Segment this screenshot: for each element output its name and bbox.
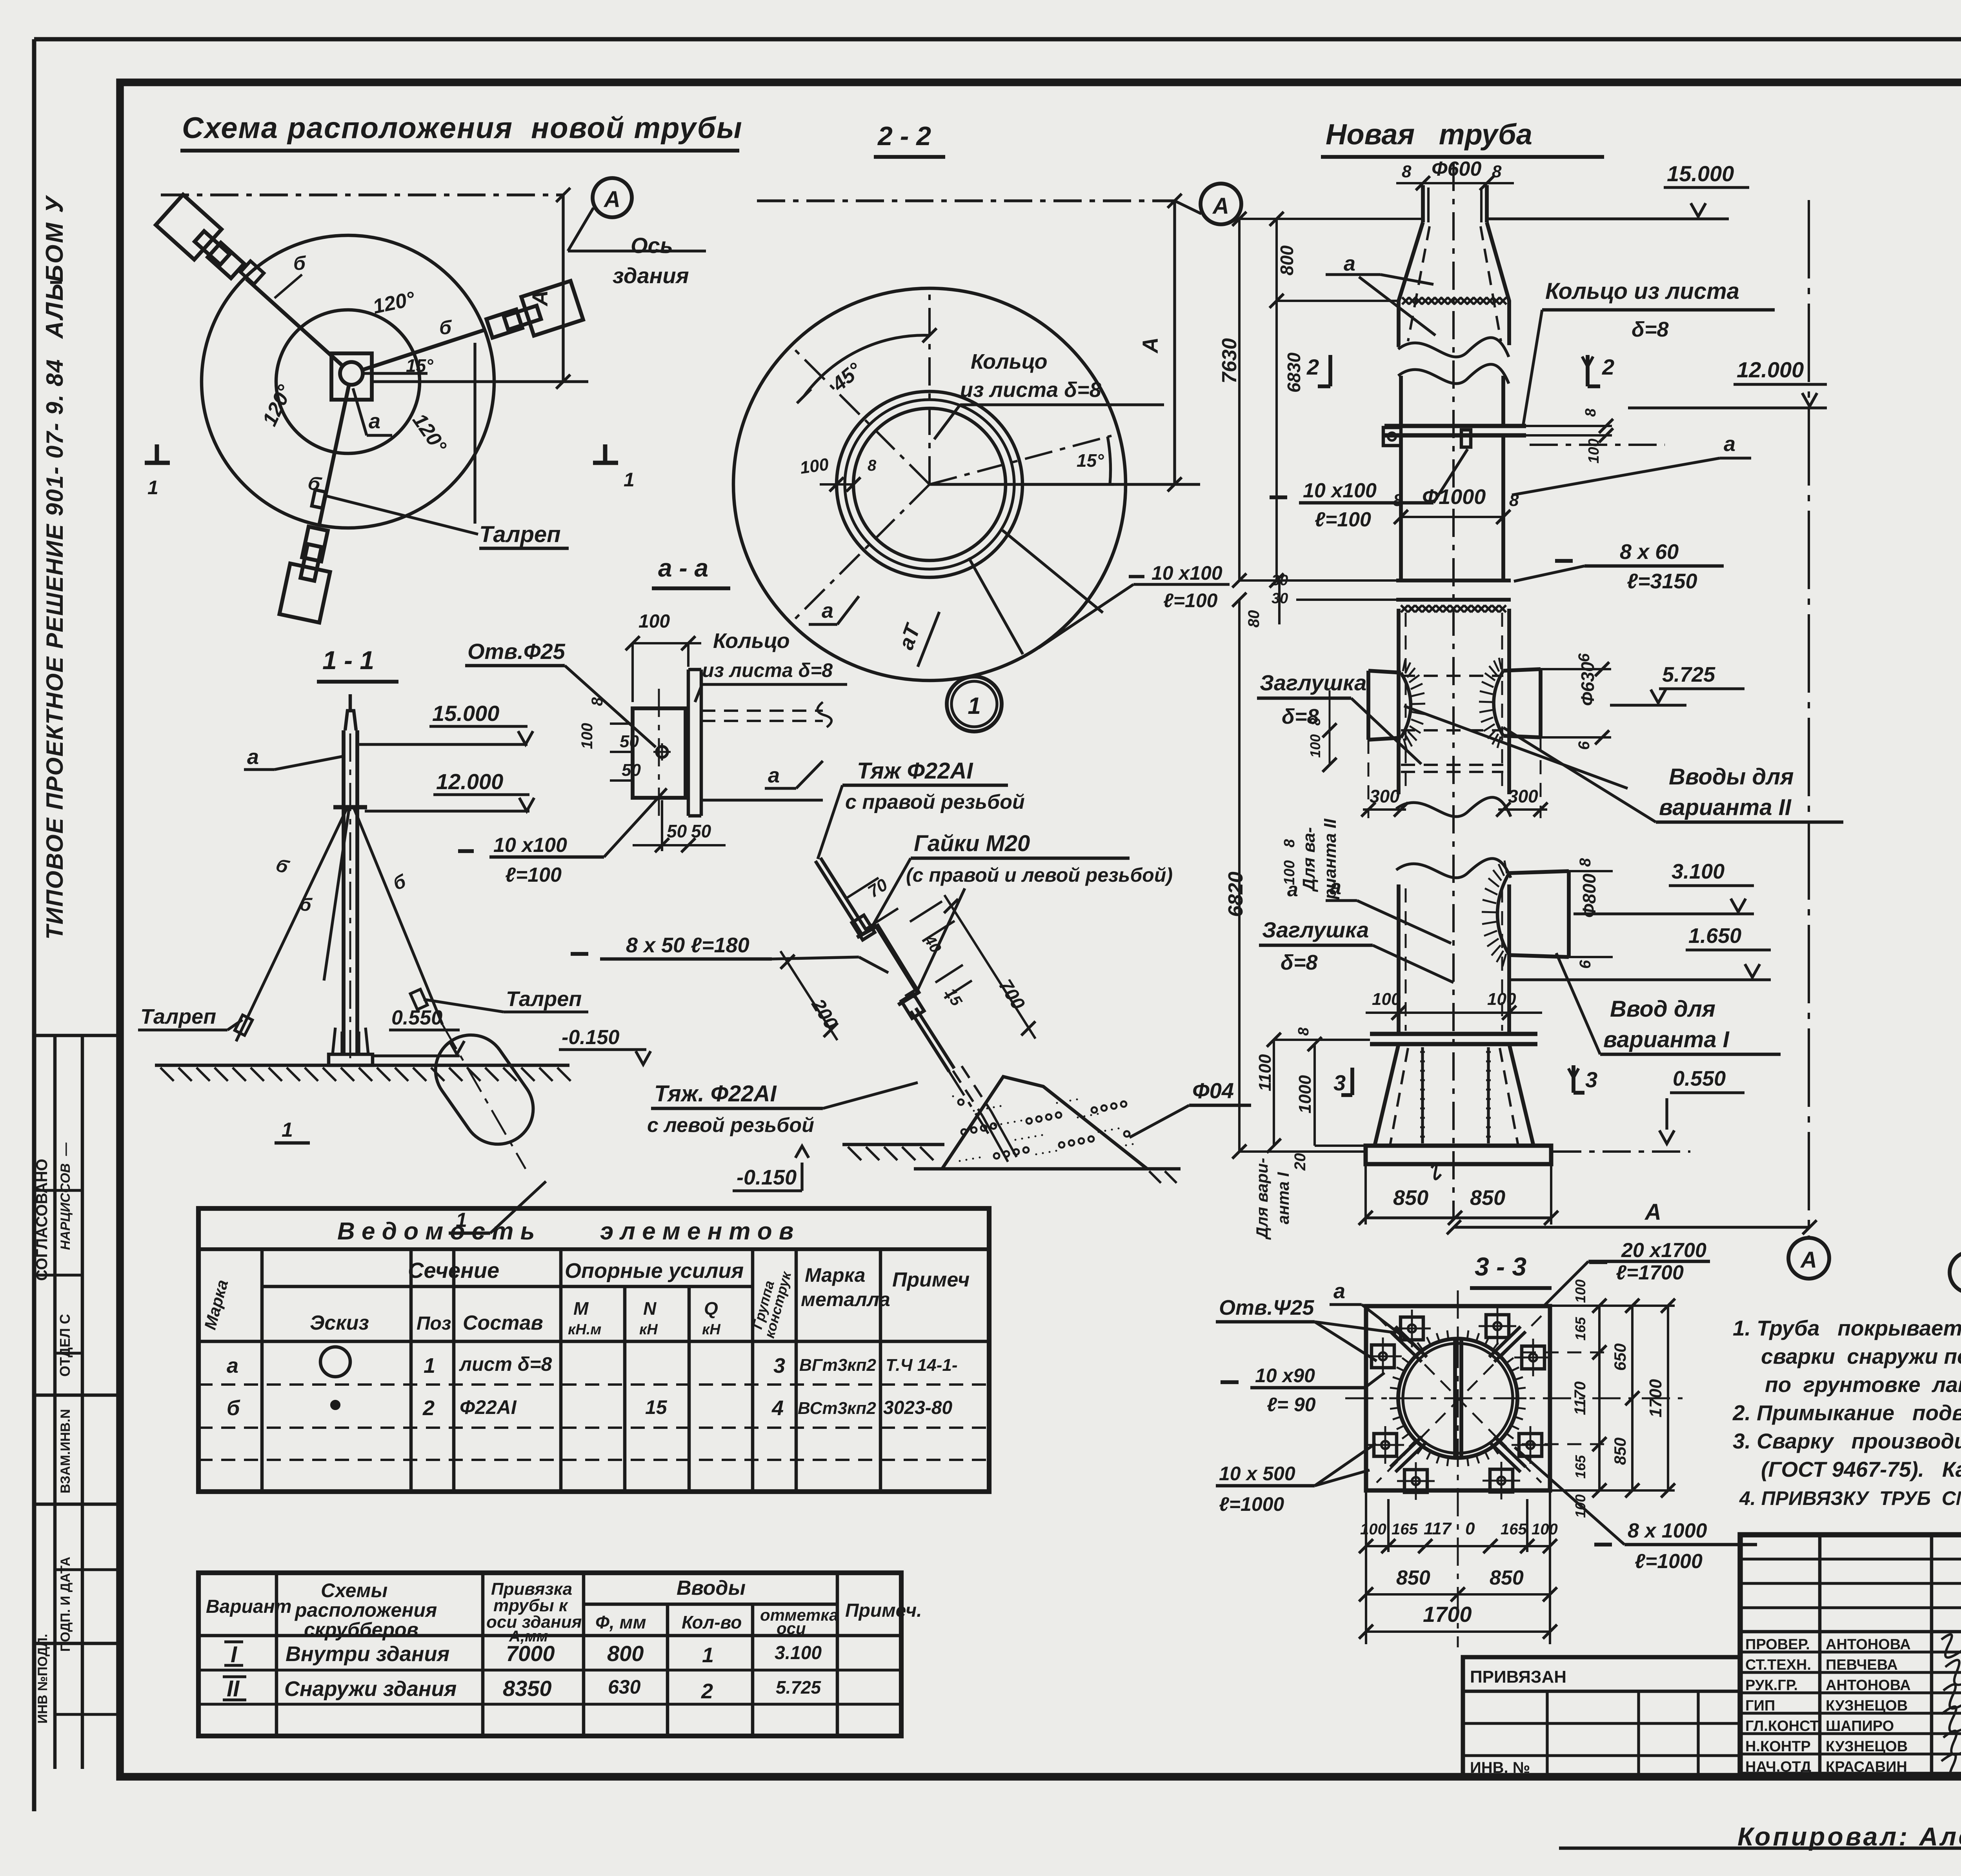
plan dim A vertical [372, 195, 588, 389]
sidebar album text [41, 195, 68, 339]
inlet port right (variant I) [1482, 861, 1569, 966]
dim 8 Ф600 8 (top) [1396, 158, 1514, 190]
dim 0.550 (1-1) [373, 1006, 464, 1056]
label a cone [1326, 252, 1435, 335]
label Для варианта II (rot) [1287, 819, 1340, 901]
3-3 dim chain bottom fine [1359, 1490, 1558, 1644]
plan anchor right [486, 309, 522, 338]
2-2 label Кольцо из листа [934, 350, 1164, 439]
table Привязан [1463, 1657, 1740, 1777]
scan noise overlay [0, 0, 0, 0]
plan angle 15 line [363, 372, 427, 375]
section mark 2 right [1582, 355, 1614, 386]
3-3 shell circle [1389, 1330, 1526, 1467]
dim 200 (turnbuckle) [780, 951, 842, 1040]
note 10x500 (3-3) [1216, 1443, 1376, 1515]
label Ф04 [1130, 1078, 1251, 1137]
dim 70 (turnbuckle) [846, 875, 898, 929]
new pipe upper shell [1398, 338, 1509, 384]
2-2 ring inner [853, 408, 1006, 560]
title block roles [1745, 1636, 1911, 1775]
label Ввод для варианта I [1556, 953, 1781, 1054]
plan label a with leader [353, 388, 392, 435]
level 1.650 (new pipe) [1511, 924, 1771, 980]
mast base [329, 1028, 373, 1065]
dim 850 850 (new pipe base) [1359, 1164, 1558, 1225]
3-3 base plate square [1366, 1306, 1550, 1490]
label Отв Ф25 (а-а) [465, 639, 656, 747]
а-а plate [633, 689, 686, 820]
label Отв Ф25 (3-3) [1216, 1296, 1396, 1361]
dim -0.150 (1-1) [559, 1026, 651, 1064]
dim 15.000 (1-1) [359, 701, 533, 744]
plan label b2 [439, 317, 452, 338]
label Талреп left (1-1) [138, 1005, 242, 1030]
2-2 dim 100 and 8 [799, 455, 877, 491]
2-2 ring mid [845, 400, 1014, 569]
plan building axis line [161, 188, 570, 202]
а-а hole Отв Ф25 [653, 743, 671, 761]
label Кольцо из листа (а-а) [695, 629, 847, 702]
3-3 centre ribs [1455, 1339, 1461, 1457]
label Заглушка lower [1259, 917, 1453, 983]
new pipe joint [1396, 580, 1511, 612]
dims left column (new pipe) [1218, 212, 1423, 1171]
new pipe cone [1399, 222, 1509, 345]
2-2 ring outer [837, 391, 1022, 577]
2-2 angle 15 wedge [1020, 437, 1114, 484]
label a (3-3) [1330, 1279, 1412, 1343]
title block frame [1740, 1535, 1961, 1774]
axis bubble A (new pipe) [1788, 1238, 1829, 1279]
2-2 axis bubble A [1175, 184, 1241, 224]
new pipe skirt [1375, 1044, 1534, 1146]
2-2 label a bottom [894, 612, 939, 667]
dim 100 100 (base) [1366, 990, 1542, 1020]
label 1 flag left (1-1) [275, 1119, 310, 1143]
dim line A (new pipe) [1447, 1199, 1817, 1234]
label Гайки М20 [873, 831, 1173, 998]
inlet port left (variant II) [1368, 660, 1425, 750]
mast collar [333, 805, 367, 810]
2-2 ring notch [969, 530, 1103, 654]
label Заглушка upper [1257, 670, 1421, 764]
port openings dashed [1401, 676, 1503, 772]
new pipe centreline [1452, 163, 1455, 1220]
detail bubble 1 [947, 677, 1002, 731]
plan turnbuckle upper-left [240, 261, 264, 284]
label a (1-1) [244, 745, 344, 770]
concrete anchor block [942, 1066, 1147, 1169]
title а-а [652, 554, 730, 588]
note 10x100 (pipe ring) [1270, 449, 1468, 531]
notes paragraph [1732, 1316, 1961, 1509]
guy wire b right (1-1) [354, 809, 442, 1024]
dim 40 [910, 901, 955, 956]
2-2 axis line [757, 194, 1182, 208]
guy wire b mid (1-1) [298, 809, 349, 981]
2-2 radial centrelines [791, 288, 1111, 623]
note 8x50 e=180 [571, 933, 888, 973]
note 8x60 e=3150 [1514, 540, 1724, 593]
bottom rule [1559, 1847, 1961, 1850]
а-а dim 50 50 bottom [633, 800, 726, 852]
new pipe shell 2 [1401, 376, 1503, 426]
plan label b3 [306, 471, 324, 496]
ground line (1-1) [155, 1064, 569, 1067]
plan turnbuckle bottom [312, 490, 326, 508]
а-а ring bar [688, 670, 701, 816]
3-3 anchor bolts [1364, 1307, 1552, 1500]
sidebar stamp grid [34, 1035, 120, 1769]
section mark 2 left [1306, 355, 1330, 386]
note 20x1700 (3-3) [1544, 1239, 1710, 1306]
ring dims 8 100 right [1526, 408, 1665, 464]
axis bubble 5 (existing) [1950, 1252, 1961, 1293]
а-а dim 100 top [626, 611, 701, 702]
new pipe top nozzle [1423, 185, 1487, 222]
new pipe base ring [1370, 1034, 1537, 1044]
dim 30 30 80 (joint) [1245, 572, 1396, 628]
level 3.100 (new pipe) [1574, 860, 1754, 914]
tie rod upper (Тяж Ф22АІ) [815, 858, 866, 933]
2-2 outer circle [733, 288, 1126, 681]
mast [344, 694, 357, 1059]
new pipe stiffening ring [1383, 426, 1526, 447]
title 1-1 [317, 646, 398, 682]
title Новая труба [1321, 118, 1604, 157]
dim Ф800 right [1569, 858, 1613, 969]
3-3 dim chain right outer [1646, 1299, 1675, 1498]
plan pipe circle [340, 362, 363, 385]
nut lower (М20) [901, 993, 924, 1018]
table Варианты [198, 1573, 922, 1736]
anchor base line [914, 1169, 1181, 1183]
dim 300 right port [1496, 737, 1548, 818]
note 8x1000 (3-3) [1515, 1447, 1757, 1573]
2-2 angle arc 45 [797, 328, 937, 403]
level 12.000 (new pipe) [1628, 357, 1827, 408]
new pipe mid shell [1399, 609, 1509, 794]
plan section mark T1 right [593, 444, 635, 491]
label Талреп right (1-1) [424, 987, 588, 1012]
3-3 centrelines [1345, 1290, 1683, 1647]
dim 15 [935, 965, 972, 1009]
mid break (new pipe) [1396, 797, 1511, 878]
label Для варианта I (rot) [1253, 1158, 1292, 1240]
plan anchor bottom [302, 527, 328, 562]
plan section mark T left [145, 444, 170, 499]
turnbuckle left (1-1) [235, 1015, 253, 1035]
plan outer circle [202, 235, 494, 528]
plan label Ось здания [613, 233, 689, 288]
table Ведомость элементов [198, 1208, 989, 1492]
dim 700 (turnbuckle) [944, 895, 1035, 1039]
nut upper (М20) [852, 915, 875, 940]
note 10x90 (3-3) [1221, 1365, 1384, 1416]
axis line A (new pipe) [1808, 200, 1810, 1237]
label a lower-left [1326, 875, 1451, 943]
dim 8 Ф1000 8 (shell) [1393, 485, 1519, 524]
dim 300 left port [1361, 740, 1408, 818]
section mark 3 right [1568, 1065, 1597, 1093]
3-3 dim 1700 bottom [1359, 1602, 1557, 1639]
ground line (anchor) [842, 1143, 944, 1146]
plan anchor upper-left [208, 243, 244, 278]
inlet port right (variant II) [1479, 658, 1541, 748]
2-2 label a bottom-left [809, 596, 859, 624]
plan label Талреп [324, 343, 569, 548]
plan centre square [331, 353, 372, 400]
level 5.725 (new pipe) [1610, 663, 1745, 705]
plan angle label 120 right [408, 409, 451, 457]
label 1 flag capsule (1-1) [449, 1181, 546, 1233]
3-3 dim chain right inner [1522, 1279, 1675, 1518]
label a shell right [1512, 432, 1751, 495]
а-а dim 8 100 50 50 left [578, 697, 641, 781]
plan angle label 120 top [371, 287, 417, 318]
3-3 dim chain right mid [1611, 1299, 1639, 1498]
title block signatures [1941, 1634, 1961, 1805]
label Тяж Ф22АІ left [647, 1081, 918, 1137]
guy wire b upper-left (plan) [246, 279, 343, 366]
new pipe lower shell [1399, 884, 1509, 1034]
plan angle label 120 left [258, 381, 297, 429]
new pipe shell 3 [1401, 435, 1503, 580]
3-3 dim 850 850 bottom [1359, 1567, 1557, 1601]
new pipe base plate [1366, 1146, 1551, 1164]
level 0.550 (new pipe) [1553, 1067, 1745, 1152]
title 3-3 [1470, 1252, 1552, 1288]
3-3 diagonal ribs [1390, 1326, 1526, 1472]
dim -0.150 (anchor) [733, 1146, 809, 1191]
plan label b1 [275, 252, 306, 298]
dim Ф630 right [1541, 653, 1611, 750]
2-2 note 10x100 [1039, 562, 1230, 648]
turnbuckle body [857, 924, 919, 1005]
dim 8 100 cap plate [1307, 690, 1337, 772]
2-2 dim A vertical right [930, 201, 1200, 491]
level 15.000 (new pipe) [1487, 161, 1749, 219]
label Тяж Ф22АІ right thread [818, 758, 1025, 859]
dim 12.000 (1-1) [365, 769, 534, 811]
guy wire b right (plan) [362, 330, 485, 370]
guy wire b left (1-1) [236, 809, 347, 1041]
section mark 3 left [1333, 1068, 1352, 1095]
а-а pipe dashed [701, 702, 831, 800]
plan inner circle [276, 310, 420, 453]
plan axis bubble A [568, 178, 706, 251]
label Вводы для варианта II [1404, 706, 1843, 822]
anchor capsule (1-1) [422, 1021, 547, 1169]
label a right (а-а) [765, 761, 823, 788]
label Кольцо из листа (pipe) [1523, 278, 1775, 424]
turnbuckle right (1-1) [410, 989, 427, 1010]
tie rod lower (Тяж Ф22АІ left thread) [911, 1008, 988, 1134]
note 10x100 (а-а) [458, 788, 667, 886]
title 2-2 [874, 121, 945, 157]
guy wire b bottom (plan) [319, 384, 349, 527]
title Схема расположения новой трубы [180, 111, 743, 151]
